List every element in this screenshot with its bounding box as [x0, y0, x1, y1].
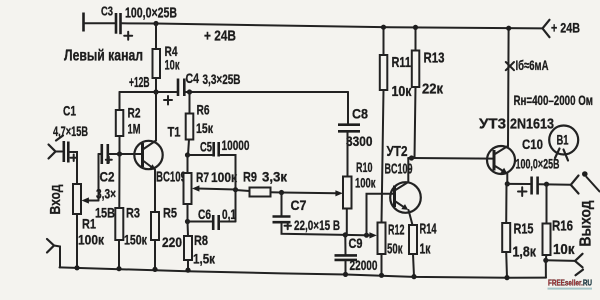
svg-text:Rн=400–2000 Ом: Rн=400–2000 Ом [514, 93, 594, 108]
capacitor C7 [273, 193, 341, 234]
node C5/C6 riser and wiper [233, 187, 238, 192]
node top rail R13 [413, 25, 418, 30]
svg-text:3300: 3300 [346, 133, 373, 149]
svg-text:3,3×25В: 3,3×25В [203, 71, 241, 87]
svg-text:УТ3: УТ3 [479, 117, 506, 133]
svg-text:0,1: 0,1 [222, 207, 236, 222]
wire C6 branch [188, 221, 212, 223]
svg-text:+ 24В: + 24В [204, 29, 236, 45]
resistor R10 (potentiometer) [343, 132, 376, 235]
svg-text:C6: C6 [198, 207, 211, 222]
wire bottom rail [60, 267, 547, 277]
resistor R4 [153, 24, 181, 93]
input connector upper [49, 136, 64, 159]
svg-text:R10: R10 [356, 160, 373, 175]
svg-text:1,5к: 1,5к [193, 251, 216, 267]
svg-text:Левый канал: Левый канал [64, 48, 143, 65]
node rail R3 [116, 266, 121, 271]
svg-text:R3: R3 [126, 205, 140, 221]
capacitor C5 [200, 137, 250, 157]
wire top rail left segment [84, 22, 115, 24]
svg-text:15В: 15В [95, 205, 115, 221]
svg-text:FREEseller.RU: FREEseller.RU [548, 278, 592, 288]
svg-text:C1: C1 [63, 103, 76, 119]
wire VT2 collector to VT3 base [408, 157, 493, 160]
svg-text:10000: 10000 [222, 137, 250, 153]
resistor R8 [184, 222, 216, 271]
svg-text:Выход: Выход [578, 200, 595, 246]
resistor R15 [502, 184, 536, 278]
node C4 / R6 [187, 89, 192, 94]
input connector lower [47, 239, 60, 267]
svg-text:R9: R9 [243, 169, 257, 185]
wire B1 lead to edge [587, 177, 600, 192]
svg-text:22000: 22000 [350, 257, 378, 273]
capacitor C1 [53, 103, 88, 163]
capacitor C2 [95, 144, 116, 221]
svg-text:Iб≈6мА: Iб≈6мА [516, 57, 549, 73]
resistor R1 (potentiometer) [73, 184, 105, 268]
svg-text:2N1613: 2N1613 [510, 117, 554, 133]
svg-text:R7: R7 [196, 169, 209, 185]
resistor R2 [116, 92, 141, 154]
connector output upper [571, 176, 579, 194]
svg-text:C8: C8 [352, 106, 368, 122]
capacitor C6 [198, 207, 236, 230]
capacitor C4 [164, 70, 241, 105]
wire top +24V rail [122, 23, 543, 28]
node C10 / R16 [544, 182, 549, 187]
svg-text:R6: R6 [197, 102, 210, 118]
resistor R3 [115, 154, 147, 269]
wire C5 to corner [220, 155, 235, 222]
resistor R12 (potentiometer) [378, 223, 405, 276]
wiper of R7 [192, 185, 236, 191]
node VT3 emitter / C10 / R15 [505, 181, 510, 186]
svg-text:+12В: +12В [129, 75, 150, 91]
resistor R11 [380, 27, 412, 222]
svg-text:R14: R14 [420, 222, 437, 238]
svg-text:3,3к: 3,3к [262, 169, 288, 185]
svg-text:50к: 50к [387, 242, 403, 258]
wire R9 to R10 wiper [282, 190, 343, 196]
svg-text:100,0×25В: 100,0×25В [516, 157, 560, 172]
wire C7 bottom to node [282, 223, 346, 235]
capacitor C10 [516, 136, 560, 196]
svg-text:R2: R2 [128, 105, 141, 121]
svg-text:T1: T1 [168, 124, 181, 140]
svg-text:BC109: BC109 [156, 170, 186, 186]
svg-text:+ 24В: + 24В [551, 20, 580, 36]
node rail R12 [379, 273, 384, 278]
svg-text:100,0×25В: 100,0×25В [125, 4, 177, 21]
svg-text:C3: C3 [101, 5, 113, 19]
transistor VT2 [385, 144, 421, 225]
resistor R13 [412, 27, 445, 158]
svg-text:R8: R8 [194, 232, 208, 248]
svg-text:R12: R12 [388, 223, 405, 239]
svg-text:1к: 1к [420, 242, 432, 258]
svg-text:C9: C9 [349, 236, 363, 251]
wire R16 to bottom rail end [545, 260, 547, 277]
node R10 / C7 / C9 / wiper R12 [343, 232, 348, 237]
resistor R9 [236, 169, 288, 197]
svg-text:R5: R5 [163, 205, 177, 221]
node R16 lower output [543, 258, 548, 263]
svg-text:1,8к: 1,8к [513, 245, 537, 261]
svg-text:C2: C2 [100, 169, 115, 185]
resistor R5 [151, 205, 182, 270]
node R7 / C6 / R8 [185, 219, 190, 224]
svg-text:C4: C4 [186, 70, 200, 86]
svg-text:22,0×15 В: 22,0×15 В [294, 217, 340, 233]
node top rail R11 [381, 25, 386, 30]
connector output lower [546, 254, 583, 275]
resistor R14 [409, 222, 437, 277]
svg-text:100к: 100к [78, 232, 105, 248]
svg-text:22к: 22к [422, 82, 444, 98]
node wiper / VT2 base riser [364, 233, 369, 238]
node VT2 collector / R13 [409, 155, 414, 160]
node rail R15 [504, 275, 509, 280]
wire C5 branch [188, 154, 213, 156]
node rail R8 [185, 268, 190, 273]
svg-text:BC109: BC109 [385, 162, 413, 178]
svg-text:1М: 1М [128, 121, 141, 137]
wire C10 to output [539, 183, 571, 186]
svg-text:C7: C7 [291, 197, 307, 213]
transistor VT3 [479, 117, 554, 184]
capacitor C3 [101, 4, 177, 39]
terminal bar left of C3 [82, 13, 85, 32]
svg-text:В1: В1 [557, 133, 569, 148]
capacitor C8 [338, 92, 373, 149]
resistor R7 (potentiometer) [184, 155, 238, 222]
transistor T1 [134, 92, 186, 212]
svg-text:10к: 10к [165, 57, 181, 73]
node rail C9 [343, 272, 348, 277]
headphone B1 [549, 126, 578, 161]
resistor R6 [186, 92, 214, 155]
wire riser base VT2 [367, 194, 395, 235]
wiper of R1 to C2 [82, 154, 101, 204]
svg-text:10к: 10к [553, 242, 575, 258]
node R9 / C7 [279, 190, 284, 195]
svg-text:R16: R16 [552, 219, 573, 235]
svg-text:10к: 10к [392, 84, 413, 100]
node B1 lead / upper connector [582, 171, 588, 177]
current break mark x [506, 62, 514, 70]
wire emitter to C10 [507, 183, 530, 185]
wire VT3 collector to +24V rail [507, 28, 510, 146]
svg-text:15к: 15к [196, 120, 214, 136]
svg-text:150к: 150к [124, 232, 148, 248]
resistor R16 [543, 184, 576, 260]
node rail R14 [411, 274, 416, 279]
svg-text:220: 220 [162, 234, 182, 250]
svg-text:100к: 100к [355, 176, 376, 191]
wiper wire of R12 [345, 232, 377, 238]
wire +12V rail [120, 91, 177, 93]
node R6 / C5 / R7 [185, 152, 190, 157]
node rail R5 [152, 267, 157, 272]
svg-text:C5: C5 [200, 140, 212, 155]
svg-text:Вход: Вход [47, 184, 64, 214]
svg-text:R11: R11 [392, 55, 412, 71]
svg-text:100к: 100к [211, 169, 238, 185]
svg-text:R13: R13 [424, 51, 445, 67]
node top rail VT3 collector [506, 26, 511, 31]
logo FREEseller.RU [548, 278, 593, 290]
node collector T1 / R4 / C4 [153, 89, 158, 94]
capacitor C9 [335, 235, 378, 275]
svg-text:УТ2: УТ2 [387, 144, 408, 160]
node top rail / R4 [153, 21, 158, 26]
connector +24V right [543, 20, 581, 38]
wire C1 to R1 [70, 152, 78, 184]
svg-text:C10: C10 [522, 136, 543, 152]
svg-text:R15: R15 [514, 222, 534, 238]
svg-text:4,7×15В: 4,7×15В [53, 123, 88, 139]
svg-text:3,3×: 3,3× [96, 186, 116, 202]
node R2 / R3 / base wire [117, 151, 122, 156]
wire base T1 [109, 153, 142, 155]
node rail R1 [74, 265, 79, 270]
